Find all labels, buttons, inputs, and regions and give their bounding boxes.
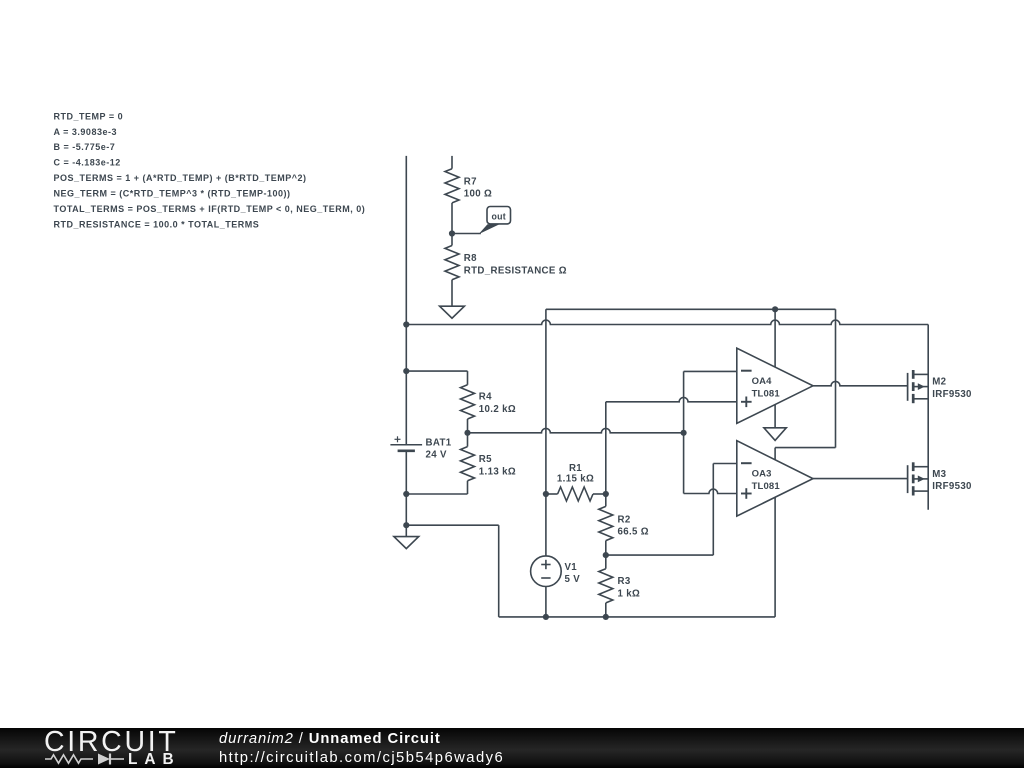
- svg-text:1.15 kΩ: 1.15 kΩ: [557, 474, 594, 485]
- svg-text:1 kΩ: 1 kΩ: [618, 589, 641, 600]
- svg-text:A = 3.9083e-3: A = 3.9083e-3: [54, 127, 117, 137]
- svg-text:TL081: TL081: [752, 481, 781, 492]
- svg-text:R5: R5: [479, 454, 492, 465]
- svg-text:OA3: OA3: [752, 469, 772, 480]
- svg-text:IRF9530: IRF9530: [932, 481, 972, 492]
- svg-text:100 Ω: 100 Ω: [464, 189, 492, 200]
- svg-text:66.5 Ω: 66.5 Ω: [618, 527, 649, 538]
- svg-text:V1: V1: [565, 562, 578, 573]
- svg-text:IRF9530: IRF9530: [932, 389, 972, 400]
- svg-text:out: out: [492, 212, 506, 222]
- svg-text:R2: R2: [618, 514, 631, 525]
- svg-text:RTD_RESISTANCE Ω: RTD_RESISTANCE Ω: [464, 265, 567, 276]
- svg-text:M3: M3: [932, 469, 946, 480]
- svg-text:C = -4.183e-12: C = -4.183e-12: [54, 158, 121, 168]
- svg-text:OA4: OA4: [752, 376, 773, 387]
- svg-text:R1: R1: [569, 463, 582, 474]
- svg-text:R8: R8: [464, 253, 477, 264]
- svg-text:NEG_TERM = (C*RTD_TEMP^3 * (RT: NEG_TERM = (C*RTD_TEMP^3 * (RTD_TEMP-100…: [54, 189, 291, 199]
- svg-text:BAT1: BAT1: [426, 437, 452, 448]
- svg-text:1.13 kΩ: 1.13 kΩ: [479, 466, 516, 477]
- svg-text:R3: R3: [618, 576, 631, 587]
- svg-text:M2: M2: [932, 377, 946, 388]
- svg-text:5 V: 5 V: [565, 574, 581, 585]
- svg-text:R4: R4: [479, 392, 492, 403]
- svg-text:POS_TERMS = 1 + (A*RTD_TEMP) +: POS_TERMS = 1 + (A*RTD_TEMP) + (B*RTD_TE…: [54, 173, 307, 183]
- svg-text:TL081: TL081: [752, 388, 781, 399]
- svg-text:B = -5.775e-7: B = -5.775e-7: [54, 142, 116, 152]
- svg-text:10.2 kΩ: 10.2 kΩ: [479, 404, 516, 415]
- svg-text:RTD_TEMP = 0: RTD_TEMP = 0: [54, 111, 124, 121]
- svg-text:RTD_RESISTANCE = 100.0 * TOTAL: RTD_RESISTANCE = 100.0 * TOTAL_TERMS: [54, 220, 260, 230]
- svg-text:R7: R7: [464, 176, 477, 187]
- svg-text:24 V: 24 V: [426, 450, 448, 461]
- svg-text:TOTAL_TERMS = POS_TERMS + IF(R: TOTAL_TERMS = POS_TERMS + IF(RTD_TEMP < …: [54, 204, 366, 214]
